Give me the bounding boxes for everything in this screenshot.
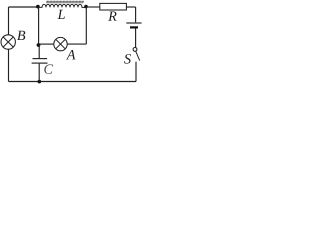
wire battery to switch	[135, 29, 137, 48]
label C	[44, 64, 53, 74]
wire right side down to battery	[135, 7, 137, 22]
wire switch to bottom-right corner	[135, 62, 137, 82]
wire top-left: top-left corner to junction J1	[9, 6, 39, 8]
lamp A cross	[56, 39, 65, 48]
node J4 (lamp-A branch tap)	[37, 43, 41, 47]
wire lamp A to right corner of branch	[67, 43, 86, 45]
battery positive plate (long)	[126, 22, 141, 24]
label L	[57, 10, 64, 19]
wire bottom: bottom-right to bottom-left	[9, 81, 137, 83]
node J2 (top of lamp-A branch)	[84, 5, 88, 9]
label S	[124, 54, 131, 64]
label B	[17, 31, 25, 40]
wire J4 to lamp A	[39, 43, 54, 45]
wire J2 to resistor	[86, 6, 100, 8]
lamp B cross	[3, 37, 13, 47]
node J1 (top of capacitor branch)	[36, 5, 40, 9]
inductor L coil	[38, 4, 86, 7]
wire J4 down to capacitor	[38, 45, 40, 58]
battery negative plate (short thick)	[130, 26, 138, 28]
wire resistor to top-right corner	[126, 6, 135, 8]
wire middle vertical J1 to J4	[38, 7, 40, 45]
wire left side lower (lamp B to bottom-left corner)	[8, 49, 10, 81]
capacitor C top plate	[33, 58, 48, 60]
node J3 (bottom of capacitor branch)	[38, 80, 42, 84]
label R	[108, 12, 117, 21]
lamp A circle	[54, 37, 67, 50]
capacitor C bottom plate	[32, 62, 48, 64]
wire left side upper (top-left corner to lamp B)	[8, 7, 10, 35]
wire capacitor to J3	[38, 64, 40, 82]
inductor L iron core bar	[46, 1, 84, 4]
switch S pivot circle	[133, 48, 137, 52]
switch S blade (open)	[136, 51, 140, 60]
label A	[66, 50, 75, 59]
lamp B circle	[1, 35, 15, 49]
wire branch corner up to J2	[85, 7, 87, 44]
resistor R	[100, 3, 127, 10]
